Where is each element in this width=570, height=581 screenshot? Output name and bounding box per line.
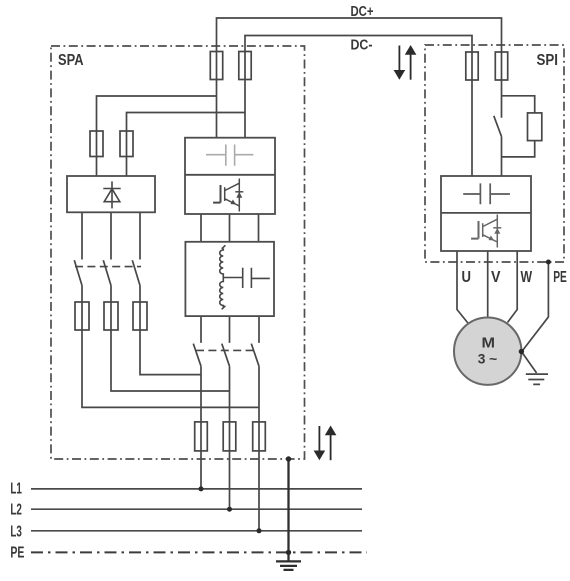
svg-text:PE: PE xyxy=(553,269,567,286)
svg-text:L2: L2 xyxy=(10,502,22,519)
svg-text:M: M xyxy=(482,335,496,352)
svg-text:L3: L3 xyxy=(10,523,22,540)
svg-text:W: W xyxy=(521,269,533,286)
svg-text:3 ~: 3 ~ xyxy=(478,351,498,367)
svg-text:SPI: SPI xyxy=(537,52,559,69)
svg-text:DC-: DC- xyxy=(351,38,373,54)
svg-text:L1: L1 xyxy=(10,481,22,498)
svg-text:U: U xyxy=(462,269,472,286)
svg-text:PE: PE xyxy=(10,544,24,561)
svg-text:V: V xyxy=(491,269,501,286)
svg-text:SPA: SPA xyxy=(58,52,84,69)
svg-text:DC+: DC+ xyxy=(351,4,374,20)
